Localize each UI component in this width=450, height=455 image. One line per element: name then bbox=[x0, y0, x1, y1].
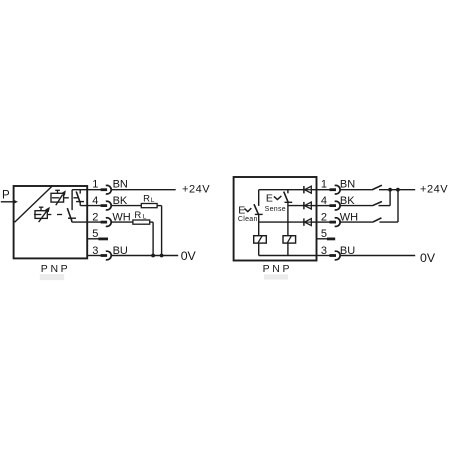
wire pin3 row BU (left) bbox=[87, 255, 101, 257]
wire Clean contact to coil bbox=[258, 214, 260, 235]
svg-text:4: 4 bbox=[92, 195, 98, 207]
watermark remnant (left) bbox=[40, 274, 64, 280]
connector pin 1 (right) bbox=[330, 185, 341, 194]
svg-text:PNP: PNP bbox=[41, 263, 71, 275]
svg-text:BN: BN bbox=[340, 178, 355, 190]
relay coil K1 (Clean) bbox=[254, 236, 267, 243]
+24V feed stem (vertical from BN wire) bbox=[71, 190, 73, 210]
wire pin3 to connector (right) bbox=[317, 255, 330, 257]
wire pin4 row BK (left) bbox=[80, 205, 101, 207]
svg-text:3: 3 bbox=[92, 245, 98, 257]
riser from RL(pin2) to 0V bbox=[152, 222, 154, 255]
diode D3 (pin2) bbox=[304, 218, 317, 225]
mechanical link lower (dashed) bbox=[48, 214, 62, 216]
wire Sense contact to coil bbox=[287, 202, 289, 235]
wire switch to riser (BK row) bbox=[379, 205, 391, 207]
wire pin1 to connector (right) bbox=[317, 189, 330, 191]
wire pin4 to connector (right) bbox=[317, 205, 330, 207]
wire coil K2 to 0V rail bbox=[287, 243, 289, 255]
pin 5 male pin (left) bbox=[99, 237, 109, 240]
diode D2 (pin4) bbox=[304, 202, 317, 209]
svg-text:0V: 0V bbox=[420, 251, 436, 265]
svg-text:1: 1 bbox=[321, 178, 327, 190]
connector pin 2 (right) bbox=[330, 218, 341, 227]
sensor box U2 (right PNP device) bbox=[234, 177, 317, 261]
watermark remnant (right) bbox=[264, 275, 288, 280]
svg-text:5: 5 bbox=[321, 228, 327, 240]
junction node (BK riser to +24V) bbox=[388, 188, 392, 192]
svg-text:BN: BN bbox=[113, 178, 128, 190]
riser from RL(pin4) to 0V bbox=[161, 206, 163, 256]
svg-text:2: 2 bbox=[92, 212, 98, 224]
wire WH to load (left) bbox=[111, 221, 133, 223]
svg-text:R: R bbox=[134, 210, 141, 221]
svg-text:L: L bbox=[143, 214, 147, 221]
wire BK to switch (right) bbox=[340, 205, 372, 207]
svg-text:1: 1 bbox=[92, 178, 98, 190]
switch contact S1 upper (to pin 4) bbox=[76, 190, 84, 206]
diode D1 (pin1) bbox=[304, 186, 317, 193]
pressure input arrow bbox=[1, 200, 18, 204]
wire pin2 row inside (right) bbox=[259, 221, 304, 223]
svg-text:+24V: +24V bbox=[420, 183, 448, 195]
wire switch to +24V (BN row) bbox=[379, 189, 415, 191]
wire BN to +24V (left) bbox=[111, 189, 176, 191]
label Ev (Clean) bbox=[238, 204, 251, 216]
switch contact S2 lower (to pin 2) bbox=[67, 208, 76, 222]
svg-text:0V: 0V bbox=[181, 249, 197, 263]
svg-text:4: 4 bbox=[321, 195, 327, 207]
junction node (riser pin4 to 0V) bbox=[160, 254, 164, 258]
connector pin 1 (left) bbox=[101, 185, 112, 194]
svg-text:2: 2 bbox=[321, 212, 327, 224]
wire BU to 0V (right) bbox=[340, 255, 415, 257]
svg-text:E: E bbox=[238, 204, 245, 216]
wire pin2 to connector (right) bbox=[317, 221, 330, 223]
connector pin 4 (right) bbox=[330, 201, 341, 210]
junction node (WH riser to +24V) bbox=[396, 188, 400, 192]
wire 0V internal rail (pin3 row inside) bbox=[259, 255, 317, 257]
pin 5 male pin (right) bbox=[327, 237, 335, 240]
connector pin 3 (left) bbox=[101, 251, 112, 260]
svg-text:5: 5 bbox=[92, 228, 98, 240]
setpoint potentiometer upper bbox=[51, 190, 66, 205]
resistor RL (pin2 load) bbox=[133, 210, 150, 224]
switch contact Clean valve bbox=[254, 190, 263, 215]
riser BK to +24V bbox=[389, 190, 391, 206]
label Ev (Sense) bbox=[266, 193, 282, 205]
wire coil K1 to 0V rail bbox=[258, 243, 260, 255]
connector pin 2 (left) bbox=[101, 218, 112, 227]
pressure transducer diagonal bbox=[15, 186, 52, 222]
wire pin5 stub (left) bbox=[87, 238, 99, 240]
wire pin5 stub (right) bbox=[317, 238, 328, 240]
switch S5 (WH row) bbox=[372, 218, 381, 222]
wire RL(pin4) to riser bbox=[157, 205, 162, 207]
wire pin4 row inside (right) bbox=[288, 205, 304, 207]
sensor box U1 (left PNP sensor) bbox=[14, 186, 88, 258]
svg-text:3: 3 bbox=[321, 245, 327, 257]
svg-text:E: E bbox=[266, 193, 273, 205]
wire pin1 row BN (left) bbox=[72, 189, 101, 191]
wire pin2 row WH (left) bbox=[72, 221, 101, 223]
svg-text:Sense: Sense bbox=[265, 206, 286, 213]
switch S4 (BK row) bbox=[372, 202, 382, 206]
svg-text:+24V: +24V bbox=[182, 183, 210, 195]
switch contact Sense valve bbox=[284, 190, 293, 203]
wire WH to switch (right) bbox=[340, 221, 373, 223]
connector pin 4 (left) bbox=[101, 201, 112, 210]
svg-text:R: R bbox=[143, 193, 150, 204]
wire BK to load (left) bbox=[111, 205, 141, 207]
wire switch to riser (WH row) bbox=[379, 221, 398, 223]
setpoint potentiometer lower bbox=[34, 207, 50, 222]
wire BN to switch (right) bbox=[340, 189, 372, 191]
relay coil K2 (Sense) bbox=[283, 236, 296, 243]
wire BU to 0V (left) bbox=[111, 255, 178, 257]
svg-text:P: P bbox=[2, 190, 10, 202]
riser WH to +24V bbox=[397, 190, 399, 222]
svg-text:PNP: PNP bbox=[263, 263, 293, 275]
connector pin 3 (right) bbox=[330, 251, 341, 260]
svg-text:Clean: Clean bbox=[238, 216, 258, 223]
junction node (riser pin2 to 0V) bbox=[151, 254, 155, 258]
wire RL(pin2) to riser bbox=[150, 221, 153, 223]
switch S3 (BN row) bbox=[372, 185, 382, 190]
resistor RL (pin4 load) bbox=[141, 193, 157, 207]
svg-text:L: L bbox=[151, 197, 155, 204]
wire +24V internal rail (pin1 row inside) bbox=[259, 189, 304, 191]
mechanical link upper (dashed) bbox=[64, 197, 78, 199]
